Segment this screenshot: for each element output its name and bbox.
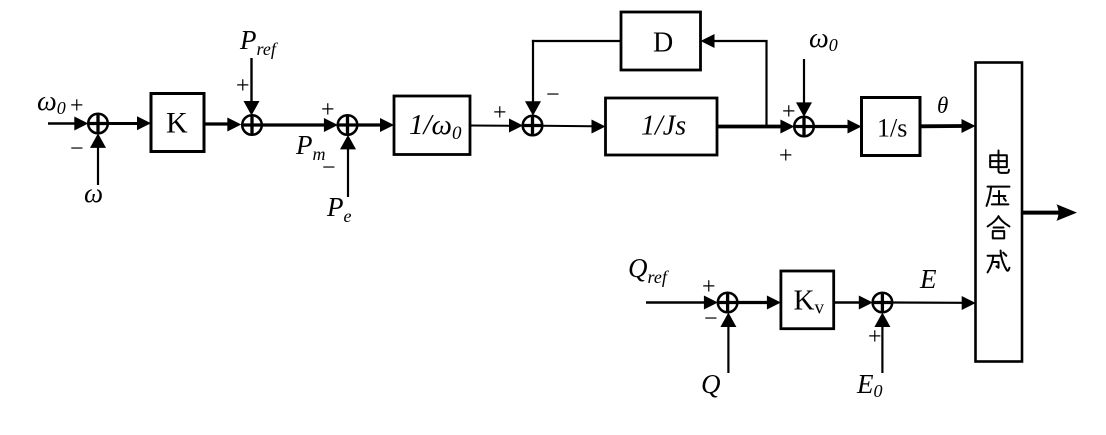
wire omega feedback into sum S1 from below [90,133,106,185]
svg-text:E0: E0 [856,369,883,401]
wire sum S4 to block 1/Js [542,120,606,134]
svg-text:1/Js: 1/Js [641,111,686,142]
svg-text:Q: Q [701,369,721,399]
text cheng (form) in voltage synthesis block [988,251,1010,273]
svg-text:D: D [653,28,673,59]
wire Pref into sum S2 from above [244,58,260,116]
svg-text:ω0: ω0 [37,86,66,118]
wire omega0 into sum S5 from above [796,59,812,117]
wire block 1/omega0 to sum S4 [470,119,523,133]
svg-text:ω0: ω0 [809,23,838,55]
text he (combine) in voltage synthesis block [988,216,1010,238]
svg-text:1/ω0: 1/ω0 [409,109,462,144]
wire block Kv to sum S7 [834,296,873,310]
summing junction S4 [523,116,543,136]
svg-text:+: + [779,143,793,169]
svg-text:+: + [236,73,250,99]
block D (damping) [621,12,701,70]
wire input w0 into sum S1 [48,117,88,131]
block 1/s (integrator) [862,98,921,156]
svg-text:−: − [70,136,84,162]
svg-text:+: + [493,100,507,126]
svg-text:Pref: Pref [239,25,279,59]
summing junction S2 [242,115,262,135]
wire sum S7 to voltage synthesis block, net E [892,296,976,310]
wire sum S5 to block 1/s [813,120,861,134]
block K (frequency droop gain) [151,94,204,152]
svg-text:+: + [782,99,796,125]
block voltage synthesis (dian ya he cheng) [976,63,1023,362]
svg-text:+: + [70,93,84,119]
wire Q into sum S6 from below [720,313,736,374]
summing junction S3 [338,115,358,135]
svg-text:+: + [702,274,716,300]
text ya (pressure) in voltage synthesis block [987,187,1010,206]
wire block K to sum S2 [204,118,241,132]
svg-text:Pe: Pe [326,192,352,226]
svg-text:−: − [322,155,336,181]
wire Qref into sum S6 [646,296,718,310]
block 1/omega0 [394,96,470,155]
wire output of voltage synthesis block [1022,204,1078,221]
wire block D output down into sum S4 [525,40,621,116]
wire block 1/s to voltage-synthesis block, net theta [920,119,976,133]
text dian (electric) in voltage synthesis block [990,151,1009,173]
svg-text:+: + [321,97,335,123]
summing junction S7 [873,293,893,313]
block Kv (voltage droop gain) [781,271,834,329]
svg-text:+: + [868,324,882,350]
svg-text:−: − [546,82,560,108]
svg-text:Qref: Qref [628,253,670,287]
wire sum S3 to block 1/w0 [357,118,394,132]
svg-text:ω: ω [84,178,103,208]
svg-text:E: E [919,264,937,294]
wire junction up to block D input [701,34,768,127]
wire Pe into sum S3 from below [340,135,356,197]
svg-text:−: − [704,306,718,332]
wire E0 into sum S7 from below [874,313,890,374]
summing junction S1 [88,114,108,134]
wire sum S2 to sum S3, net Pm [261,118,338,132]
summing junction S6 [718,293,738,313]
svg-text:Pm: Pm [295,130,326,164]
svg-text:θ: θ [937,93,948,118]
wire sum S1 to block K [108,116,151,130]
wire block 1/Js to sum S5 with junction to D feedback [717,120,794,134]
svg-text:1/s: 1/s [877,114,907,143]
wire sum S6 to block Kv [737,296,781,310]
block 1/Js (inertia) [606,98,718,155]
svg-text:K: K [166,107,188,140]
summing junction S5 [794,117,814,137]
svg-text:Kv: Kv [794,285,825,319]
